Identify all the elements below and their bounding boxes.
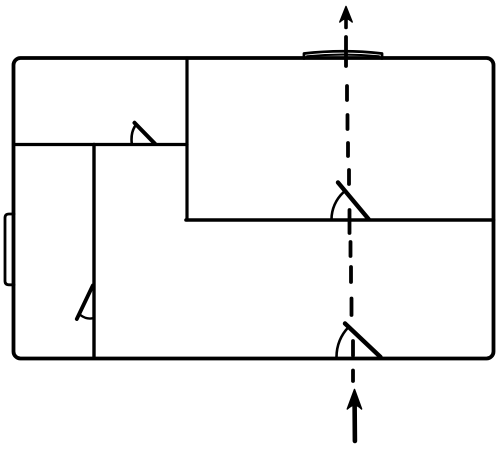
window lintel inner [307, 55, 379, 57]
door B leaf [338, 183, 369, 220]
door C leaf [77, 286, 93, 320]
dash 9 [350, 299, 354, 316]
dash crossing wall H2 [348, 210, 352, 233]
dash 10 [351, 341, 355, 356]
wall V1 [185, 58, 188, 220]
door B arc [332, 192, 344, 219]
outer wall [14, 58, 494, 359]
dash crossing top wall [344, 37, 348, 66]
wall H2 [186, 218, 494, 222]
window lintel outer [304, 51, 382, 58]
dash 2 [345, 86, 349, 100]
bottom arrow shaft [352, 402, 357, 441]
door D arc [337, 327, 349, 357]
wall V2 [92, 145, 95, 359]
dash 3 [346, 115, 350, 129]
bottom arrow head [347, 390, 361, 410]
dash 11 below wall [351, 371, 355, 382]
wall H1 [14, 143, 188, 146]
dash 4 [346, 143, 350, 156]
door D leaf [345, 324, 381, 358]
top arrow head [340, 7, 352, 23]
dash 8 [349, 267, 353, 282]
door C arc [81, 315, 93, 318]
door A leaf [135, 123, 156, 144]
top arrow shaft [344, 15, 348, 28]
door A arc [132, 126, 136, 144]
dash 5 [347, 170, 351, 184]
left door bump [5, 214, 14, 285]
dash 7 [349, 242, 353, 256]
